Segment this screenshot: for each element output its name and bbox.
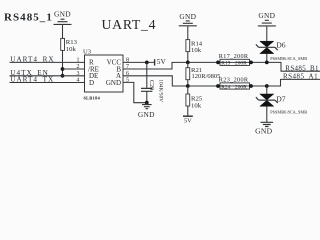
svg-text:C20: C20 <box>148 80 154 90</box>
svg-text:5V: 5V <box>184 117 192 124</box>
svg-text:10k: 10k <box>66 46 77 53</box>
junction: R14/R21 on B rail <box>186 61 190 65</box>
junction on pin 2 wire <box>61 67 65 71</box>
wire pin 7 (B) with jog up to B rail <box>123 62 320 71</box>
svg-text:10k: 10k <box>191 47 202 54</box>
resistor R25 <box>186 86 203 116</box>
wire pin 8 (VCC) to +5V <box>123 61 154 63</box>
wire pin 2 (/RE tie) <box>63 68 85 70</box>
svg-text:6LB184: 6LB184 <box>84 96 101 101</box>
junction: right node of R17/R19 <box>249 61 253 65</box>
resistor R24 (lower body) <box>220 86 250 89</box>
wire pin 3 (U4TX_EN) <box>10 75 85 77</box>
svg-text:RS485_A1: RS485_A1 <box>283 73 318 81</box>
resistor R13 <box>61 38 78 52</box>
resistor R23 (upper body) <box>220 83 250 86</box>
wire pin 6 (A) with jog down to A rail <box>123 76 320 86</box>
svg-text:10k: 10k <box>191 102 202 109</box>
resistor R14 <box>186 40 203 55</box>
wire: D6 to B rail <box>266 54 268 63</box>
wire: GND to D6 <box>266 26 268 41</box>
wire: R13 to net tie (crosses pin1 wire, dots on pins 2,3) <box>62 50 64 75</box>
wire: A rail to D7 <box>266 86 268 94</box>
IC U3 (RS485 transceiver 65LB184) <box>83 48 123 92</box>
resistor R19 (lower body) <box>220 62 250 65</box>
wire: D7 to ground <box>266 106 268 122</box>
svg-text:GND: GND <box>258 11 275 20</box>
svg-text:GND: GND <box>106 79 121 87</box>
wire: GND to R14 <box>187 26 189 39</box>
junction: C20 tap on VCC wire <box>145 61 149 65</box>
junction: pin5 / C20 / ground <box>145 101 149 105</box>
ground GND (below C20) <box>138 103 155 120</box>
svg-text:P6SMB6.8CA_SMB: P6SMB6.8CA_SMB <box>270 109 307 114</box>
svg-text:GND: GND <box>138 110 155 119</box>
svg-text:D7: D7 <box>276 95 285 104</box>
wire pin 1 (UART4_RX) <box>10 61 85 63</box>
svg-text:D6: D6 <box>276 41 285 50</box>
svg-text:3: 3 <box>77 71 80 77</box>
TVS diode D7 <box>256 94 286 106</box>
power port GND (top-right, net GND) <box>258 11 276 26</box>
wire: GND to R13 <box>62 25 64 39</box>
svg-text:200R: 200R <box>235 84 247 90</box>
svg-text:GND: GND <box>54 10 71 19</box>
power port 5V (bottom bar style) <box>183 116 193 124</box>
capacitor C20 <box>141 62 163 102</box>
resistor R17 (upper body) <box>220 59 250 62</box>
ground GND (below D7) <box>255 122 273 135</box>
svg-text:120R/0805: 120R/0805 <box>192 73 221 80</box>
power port 5V (bar style) <box>155 57 167 66</box>
svg-text:GND: GND <box>179 12 196 21</box>
junction: left node of R23/R24 <box>216 84 220 88</box>
svg-text:2: 2 <box>77 64 80 70</box>
wire pin 5 (GND) down to C20 ground node <box>123 82 147 102</box>
svg-text:RS485_B1: RS485_B1 <box>285 64 319 72</box>
svg-text:R24: R24 <box>221 84 230 90</box>
svg-text:U3: U3 <box>83 48 92 55</box>
svg-text:D: D <box>89 79 94 87</box>
junction: right node of R23/R24 <box>249 84 253 88</box>
junction: D6 on B rail <box>265 61 269 65</box>
svg-text:GND: GND <box>255 127 273 136</box>
wire: R14 to B rail <box>187 52 189 63</box>
svg-text:200R: 200R <box>235 61 247 67</box>
svg-text:1: 1 <box>77 57 80 63</box>
junction on pin 3 wire <box>61 74 65 78</box>
power port GND (top-middle, net GND) <box>179 12 197 26</box>
svg-text:5V: 5V <box>157 57 167 66</box>
wire pin 4 (UART4_TX) <box>10 82 85 84</box>
junction: D7 on A rail <box>265 84 269 88</box>
resistor R21 <box>186 62 221 86</box>
junction: R21/R25 on A rail <box>186 84 190 88</box>
svg-text:4: 4 <box>77 78 80 84</box>
svg-text:UART_4: UART_4 <box>102 17 157 32</box>
power port GND (top-left, net GND) <box>54 10 72 25</box>
svg-text:P6SMB6.8CA_SMB: P6SMB6.8CA_SMB <box>270 56 307 61</box>
TVS diode D6 <box>256 41 286 54</box>
svg-text:RS485_1: RS485_1 <box>4 12 53 24</box>
junction: left node of R17/R19 <box>216 61 220 65</box>
svg-text:R19: R19 <box>221 61 230 67</box>
svg-text:104K/50V: 104K/50V <box>157 79 163 102</box>
